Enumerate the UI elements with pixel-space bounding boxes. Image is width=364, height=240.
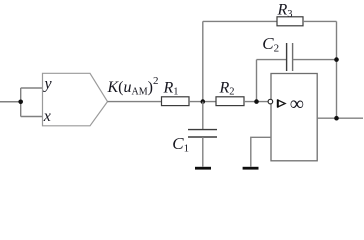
svg-text:K(uAM)2: K(uAM)2 bbox=[107, 75, 159, 98]
resistor R3 bbox=[277, 17, 303, 26]
svg-text:x: x bbox=[43, 108, 51, 125]
ground for C1 bbox=[195, 167, 211, 170]
svg-text:C2: C2 bbox=[262, 34, 279, 55]
wire node B up bbox=[256, 60, 258, 102]
wire stub y bbox=[21, 87, 43, 89]
node A bbox=[201, 99, 206, 104]
node B bbox=[254, 99, 259, 104]
node input junction bbox=[18, 100, 23, 105]
wire op-amp noninverting input bbox=[251, 137, 271, 166]
squarer block U1 bbox=[43, 73, 108, 126]
wire feedback vertical bbox=[336, 21, 338, 118]
svg-text:∞: ∞ bbox=[290, 93, 304, 115]
wire C1 down to ground bbox=[202, 137, 204, 167]
wire C2 right bbox=[293, 59, 337, 61]
svg-text:R3: R3 bbox=[277, 2, 293, 20]
wire C2 left bbox=[257, 59, 287, 61]
op-amp inverting input circle bbox=[268, 99, 273, 104]
ground for noninverting input bbox=[243, 167, 259, 170]
wire input bbox=[0, 101, 21, 103]
capacitor C2 bbox=[286, 43, 288, 71]
svg-text:C1: C1 bbox=[172, 134, 189, 155]
wire node A up bbox=[202, 21, 204, 101]
capacitor C1 bbox=[188, 129, 217, 131]
wire op-amp output bbox=[317, 117, 363, 119]
wire top feedback right bbox=[303, 20, 337, 22]
wire stub x bbox=[21, 116, 43, 118]
wire R1 to R2 through node A bbox=[189, 101, 216, 103]
op-amp U2 body bbox=[271, 74, 317, 161]
wire R2 to op-amp input bbox=[244, 101, 268, 103]
node output junction bbox=[334, 116, 339, 121]
svg-text:R1: R1 bbox=[163, 79, 179, 97]
wire top feedback left bbox=[203, 20, 277, 22]
wire node A down to C1 bbox=[202, 102, 204, 130]
wire input bus vertical bbox=[20, 88, 22, 117]
svg-text:R2: R2 bbox=[219, 79, 235, 97]
node C2 feedback junction bbox=[334, 57, 339, 62]
resistor R2 bbox=[216, 97, 244, 106]
svg-text:y: y bbox=[43, 76, 53, 93]
wire block output to R1 bbox=[108, 101, 162, 103]
resistor R1 bbox=[162, 97, 190, 106]
op-amp gain triangle bbox=[278, 100, 285, 107]
